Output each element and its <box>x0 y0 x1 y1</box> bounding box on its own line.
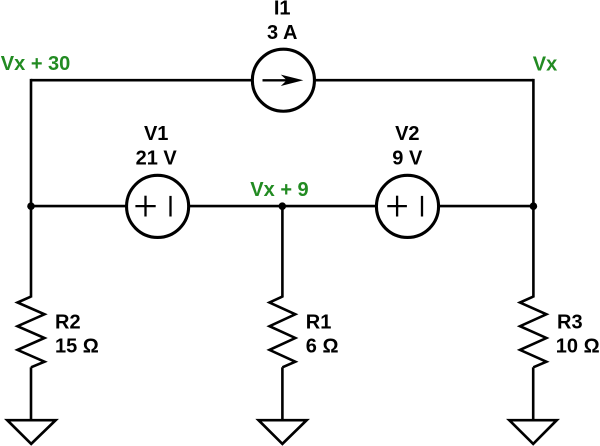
svg-text:10 Ω: 10 Ω <box>556 336 600 358</box>
current source I1 <box>252 49 314 111</box>
wire right rail <box>532 79 535 298</box>
svg-text:Vx: Vx <box>533 54 557 76</box>
svg-text:Vx + 30: Vx + 30 <box>1 53 71 75</box>
ground right <box>509 420 556 444</box>
wire left rail <box>30 79 33 298</box>
svg-text:Vx + 9: Vx + 9 <box>250 179 308 201</box>
svg-text:R1: R1 <box>306 311 332 333</box>
wire middle branch <box>281 206 284 297</box>
svg-text:R3: R3 <box>557 311 583 333</box>
voltage source V1 <box>127 175 189 237</box>
resistor R2 <box>18 297 45 368</box>
svg-text:V1: V1 <box>144 123 168 145</box>
svg-text:9 V: 9 V <box>392 147 423 169</box>
node dot left <box>27 202 35 210</box>
ground middle <box>259 420 307 444</box>
node dot middle <box>279 202 287 210</box>
wire R2 to ground <box>30 367 33 420</box>
svg-text:3 A: 3 A <box>267 22 297 44</box>
wire R1 to ground <box>281 367 284 420</box>
svg-text:I1: I1 <box>274 0 291 20</box>
svg-text:V2: V2 <box>395 123 419 145</box>
svg-text:6 Ω: 6 Ω <box>306 336 339 358</box>
svg-text:R2: R2 <box>55 311 81 333</box>
resistor R1 <box>270 297 296 368</box>
wire R3 to ground <box>532 367 535 420</box>
voltage source V2 <box>376 175 438 237</box>
svg-text:15 Ω: 15 Ω <box>55 336 99 358</box>
wire middle horizontal <box>31 205 533 208</box>
ground left <box>7 420 55 444</box>
svg-text:21 V: 21 V <box>136 147 178 169</box>
node dot right <box>530 202 538 210</box>
wire top horizontal <box>31 79 533 82</box>
resistor R3 <box>520 297 546 368</box>
